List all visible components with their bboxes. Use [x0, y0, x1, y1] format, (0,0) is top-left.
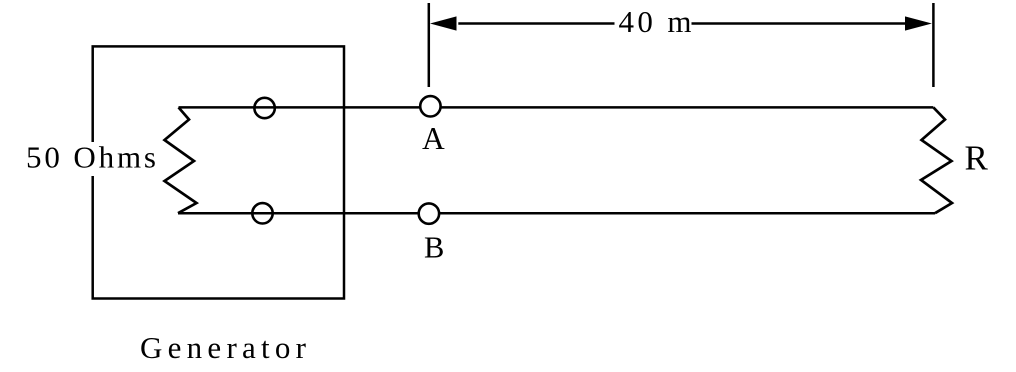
bottom wire B line: [178, 212, 935, 215]
dimension extension line right tick: [932, 3, 935, 87]
white gap on box edge behind 50 Ohms label: [23, 142, 158, 176]
dimension line left segment: [458, 22, 614, 25]
svg-text:40 m: 40 m: [619, 4, 692, 39]
svg-text:A: A: [422, 121, 445, 156]
generator terminal bottom: [252, 203, 272, 223]
resistor R zigzag (load): [921, 107, 952, 213]
top wire A line: [179, 106, 934, 109]
dimension arrowhead right: [905, 16, 932, 30]
dimension extension line left tick: [428, 3, 431, 87]
svg-text:50 Ohms: 50 Ohms: [26, 139, 156, 174]
generator terminal top: [254, 98, 274, 118]
svg-text:R: R: [965, 139, 989, 178]
node A circle: [420, 96, 440, 116]
svg-text:B: B: [424, 231, 444, 265]
dimension arrowhead left: [430, 16, 457, 30]
resistor 50 Ohms zigzag (generator internal impedance): [165, 107, 197, 213]
node B circle: [419, 203, 439, 223]
generator box: [93, 46, 344, 298]
dimension line right segment: [692, 22, 906, 25]
svg-text:Generator: Generator: [140, 330, 307, 365]
